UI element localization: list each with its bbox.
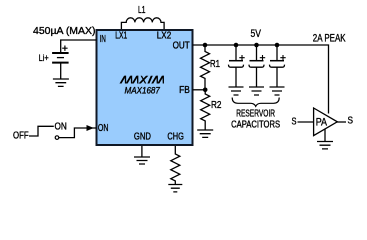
svg-text:CHG: CHG (167, 132, 184, 143)
label L1 (138, 4, 145, 16)
ground R2 (197, 130, 213, 137)
pin GND ground symbol (134, 146, 150, 164)
ground C1 (229, 87, 244, 95)
MAX1687 part number (125, 85, 161, 95)
node capacitor C2 junction (254, 43, 259, 48)
svg-text:ON: ON (55, 122, 67, 133)
resistor R2 (201, 90, 210, 130)
pin ON label (98, 123, 109, 134)
svg-text:2A PEAK: 2A PEAK (313, 33, 346, 45)
svg-text:450µA (MAX): 450µA (MAX) (33, 25, 96, 37)
wire OFF throw contact (29, 126, 54, 136)
label 5V (251, 28, 262, 40)
svg-text:L1: L1 (138, 4, 145, 16)
wire PA output to S (337, 121, 347, 123)
ground C3 (270, 87, 285, 95)
svg-text:ON: ON (98, 123, 109, 134)
label R1 (210, 59, 220, 70)
pin GND label (134, 132, 151, 143)
svg-text:CAPACITORS: CAPACITORS (231, 120, 280, 131)
svg-text:S: S (348, 116, 354, 127)
brace reservoir capacitors (232, 98, 279, 107)
resistor CHG pull-down (171, 146, 180, 184)
label PA (316, 117, 328, 129)
svg-text:5V: 5V (251, 28, 262, 40)
capacitor C1 (229, 45, 245, 87)
amplifier PA (314, 108, 338, 136)
ground C2 (249, 87, 264, 95)
label CAPACITORS (231, 120, 280, 131)
svg-text:LX2: LX2 (157, 31, 172, 42)
op-amp U1 MAX1687 IC body (97, 30, 193, 145)
svg-text:IN: IN (100, 34, 106, 45)
svg-text:MAX1687: MAX1687 (125, 85, 161, 95)
resistor R1 (201, 45, 210, 90)
ground PA (317, 129, 333, 149)
MAXIM logo (120, 76, 166, 84)
pin IN label (100, 34, 106, 45)
pin OUT label (173, 41, 190, 52)
label RESERVOIR (236, 109, 275, 120)
wire FB to divider (193, 89, 206, 91)
label S output (348, 116, 354, 127)
svg-text:R2: R2 (211, 100, 222, 111)
label 2A PEAK (313, 33, 346, 45)
label 450uA (MAX) (33, 25, 96, 37)
node FB junction (203, 88, 208, 93)
inductor L1 (121, 18, 164, 29)
node capacitor C3 junction (275, 43, 280, 48)
capacitor C3 (270, 45, 286, 87)
svg-text:LX1: LX1 (115, 31, 127, 42)
svg-text:RESERVOIR: RESERVOIR (236, 109, 275, 120)
label Li+ (39, 53, 49, 64)
ground CHG resistor (168, 185, 182, 192)
svg-text:Li+: Li+ (39, 53, 49, 64)
svg-text:OUT: OUT (173, 41, 190, 52)
arrowhead into ON pin (87, 125, 94, 131)
wire OUT 5V rail (193, 45, 329, 114)
label S input (292, 117, 297, 128)
label R2 (211, 100, 222, 111)
svg-text:S: S (292, 117, 297, 128)
switch S1 pole contact (55, 136, 59, 140)
battery B1 Li+ cell (52, 46, 69, 79)
node capacitor C1 junction (234, 43, 239, 48)
pin CHG label (167, 132, 184, 143)
pin FB label (179, 85, 190, 96)
svg-text:GND: GND (134, 132, 151, 143)
svg-text:R1: R1 (210, 59, 220, 70)
wire switch to ON pin (59, 128, 97, 138)
pin LX2 label (157, 31, 172, 42)
svg-text:OFF: OFF (13, 131, 29, 142)
label OFF (13, 131, 29, 142)
svg-text:PA: PA (316, 117, 328, 129)
wire battery to IN pin (61, 40, 97, 53)
capacitor C2 (249, 45, 265, 87)
ground battery (53, 79, 69, 86)
wire S to PA input (298, 121, 314, 123)
pin LX1 label (115, 31, 127, 42)
label ON switch position (55, 122, 67, 133)
node R1 top junction (203, 43, 208, 48)
svg-text:FB: FB (179, 85, 190, 96)
